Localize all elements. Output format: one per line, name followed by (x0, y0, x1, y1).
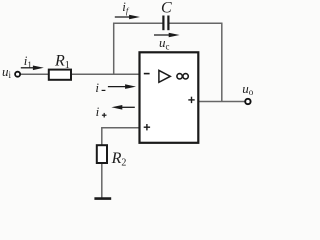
resistor R1 (49, 70, 71, 80)
op-amp output plus sign (188, 97, 194, 103)
resistor R2 (97, 145, 107, 163)
op-amp U1 body (140, 52, 199, 143)
capacitor C1 plates (163, 16, 168, 31)
op-amp non-inverting input plus sign (144, 124, 150, 130)
wire op-amp output to terminal (199, 101, 246, 103)
current annotation i1 arrow (21, 66, 44, 71)
wire R2 to ground (101, 164, 103, 199)
op-amp infinity gain symbol (177, 74, 188, 79)
current annotation if arrow (115, 15, 140, 20)
svg-text:i: i (95, 80, 99, 95)
current annotation i- arrow (108, 84, 136, 89)
ground (94, 197, 111, 200)
wire feedback vertical left (node to top) (113, 23, 115, 75)
wire feedback top left segment (113, 22, 163, 24)
wire R1 to op-amp inverting input (71, 73, 140, 75)
wire feedback top right segment (169, 22, 223, 24)
label i+ (96, 104, 107, 119)
svg-text:C: C (161, 0, 172, 17)
op-amp inverting input minus sign (144, 73, 150, 75)
wire non-inverting input horizontal (101, 127, 139, 129)
svg-text:i: i (96, 104, 100, 119)
op-amp gain triangle (159, 70, 170, 82)
wire input terminal to R1 (20, 73, 49, 75)
wire non-inverting corner down to R2 (101, 127, 103, 145)
current annotation i+ arrow (points left) (111, 105, 134, 110)
wire feedback vertical right down to output (221, 23, 223, 102)
input terminal ui (15, 72, 20, 77)
label i- (95, 80, 105, 95)
output terminal uo (245, 99, 250, 104)
voltage annotation uc arrow (154, 33, 180, 38)
